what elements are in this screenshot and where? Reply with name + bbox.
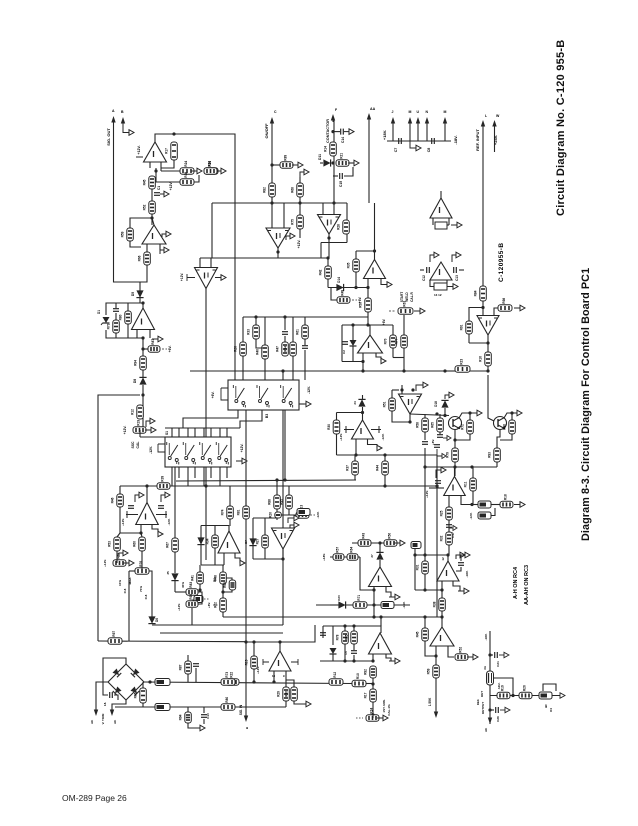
wire A1A dn (142, 338, 144, 356)
transistor Q6 (449, 417, 462, 430)
svg-text:-12V.: -12V. (381, 433, 385, 440)
svg-text:R57: R57 (336, 547, 340, 553)
resistor R61 (166, 538, 179, 552)
wire R113 up (424, 555, 426, 561)
wire R101b up (354, 455, 356, 461)
junction A6B out (327, 236, 330, 239)
wire A8C right rail (410, 414, 449, 416)
wire A7B to bus (373, 605, 375, 617)
wire D8 up (142, 370, 144, 377)
arrow rc (443, 436, 451, 441)
svg-text:R88: R88 (268, 499, 272, 505)
op-amp A6A (364, 260, 386, 279)
wire R55b down (299, 229, 301, 238)
wire R101b dn (354, 475, 356, 480)
wire A4C pin l (223, 553, 225, 565)
wire rail y642 (246, 625, 315, 642)
op-amp A20 (444, 477, 466, 496)
wire ref-out rail (490, 695, 565, 697)
zener diode ZD1 (101, 317, 110, 325)
capacitor C12 (427, 267, 430, 273)
capacitor C22 (342, 342, 348, 345)
label +6 R38 (207, 602, 211, 608)
junction AA A6A (373, 249, 376, 252)
wire bridge rail y707 (115, 706, 286, 708)
wire left rail x425 (424, 448, 426, 555)
capacitor C30 (351, 651, 357, 654)
A13 fb box (435, 222, 447, 229)
label GB1 OUT (480, 691, 484, 698)
arrow ref out (554, 693, 565, 698)
label +12V A2B (137, 145, 141, 154)
wire C14 stub (333, 131, 340, 133)
capacitor C19 (437, 435, 443, 438)
wire R88 dn (264, 548, 266, 559)
wire A13 base r (448, 218, 450, 225)
op-amp A4A (272, 528, 295, 549)
wire A20 apex stub (454, 467, 456, 477)
label HF D4 (544, 704, 548, 708)
wire A8B loop left (336, 413, 338, 456)
svg-text:-12V.: -12V. (316, 511, 320, 518)
svg-text:M: M (444, 110, 447, 114)
junction A11 x345 (343, 624, 346, 627)
arrow R11 out (215, 168, 226, 174)
svg-text:R47: R47 (276, 346, 280, 352)
wire cl6 (284, 336, 286, 342)
svg-text:D5: D5 (131, 292, 135, 296)
junction y617 x374 (372, 615, 375, 618)
arrow Q6 col (471, 410, 482, 416)
wire bridge rail y682 (144, 682, 352, 684)
junction y590 x442 (440, 588, 443, 591)
junction y642 x280 (278, 640, 281, 643)
wire adj loop (494, 678, 513, 696)
wire bridge left (96, 682, 108, 710)
junction chain (150, 216, 153, 219)
wire A6A pin l (367, 279, 369, 288)
svg-text:CONTACTOR: CONTACTOR (326, 119, 330, 143)
resistor R109 (366, 708, 379, 722)
resistor R63 (234, 342, 247, 356)
pin letter C (274, 110, 277, 114)
resistor R43 (133, 537, 146, 551)
wire ref-out drop (489, 631, 491, 724)
svg-text:R40: R40 (256, 349, 260, 355)
svg-text:B3: B3 (213, 578, 217, 582)
svg-text:R43: R43 (362, 533, 366, 539)
wire A9 apex stub (279, 642, 281, 651)
svg-text:R45: R45 (416, 631, 420, 637)
wire S1 top pin 1 (178, 428, 180, 437)
IC S1 quad switch (165, 437, 231, 467)
wire zd3 dn (332, 654, 334, 661)
wire A12 apex (487, 335, 489, 371)
svg-text:C-120955-B: C-120955-B (498, 243, 505, 282)
resistor R113 (416, 561, 429, 574)
svg-text:C26: C26 (496, 716, 500, 722)
wire A10 right lead (459, 269, 464, 271)
wire R49 dn (229, 519, 231, 526)
diode D5 (136, 290, 143, 297)
wire R64 dn (455, 434, 470, 440)
A8B tbar l (344, 426, 354, 433)
resistor R97 (446, 448, 459, 462)
junction A7B in (372, 588, 375, 591)
wire R43 net (141, 533, 142, 537)
junction y467 x425 (423, 465, 426, 468)
svg-text:R90: R90 (189, 594, 193, 600)
op-amp A6B (318, 215, 341, 235)
resistor R114 (433, 598, 446, 611)
wire D10 net (174, 560, 176, 573)
wire y590 rail (415, 589, 442, 591)
svg-text:18.: 18. (103, 702, 107, 706)
arrow A5B out (381, 358, 386, 363)
svg-text:R12: R12 (333, 672, 337, 678)
junction y455 x385 (383, 453, 386, 456)
arrow A4C out (240, 560, 245, 565)
op-amp A2A (142, 225, 166, 244)
wire R64 up (469, 413, 471, 420)
pin letter F (335, 108, 338, 112)
svg-text:+12V.: +12V. (169, 182, 173, 191)
resistor R50 START WELD (398, 301, 413, 315)
wire A30 pin l (441, 581, 443, 590)
wire fb row1 (161, 170, 180, 172)
junction y682 x150 (148, 680, 151, 683)
wire A4A loop bottom (253, 558, 283, 560)
wire R114 dn (441, 611, 443, 617)
wire A4C pin r (235, 553, 240, 563)
label B3 (265, 414, 269, 419)
svg-text:+12V.: +12V. (425, 490, 429, 498)
label +6V B3 (211, 392, 215, 399)
wire B3 bottom link (183, 410, 238, 428)
wire cl2 (255, 317, 257, 325)
wire R112 dn (372, 702, 374, 715)
capacitor C15 (340, 173, 343, 179)
resistor R68 (296, 325, 309, 339)
resistor R120 (179, 661, 192, 674)
junction y642 x246 (244, 640, 247, 643)
svg-text:R71: R71 (357, 595, 361, 601)
wire R20 down (115, 333, 117, 338)
junction y684 x373 (371, 682, 374, 685)
svg-text:D.8: D.8 (144, 594, 148, 599)
label D18 (434, 401, 438, 407)
svg-text:R59: R59 (121, 231, 125, 237)
connector arrow A40 (434, 711, 438, 718)
wire A12 in (482, 301, 484, 316)
pin letter U (417, 110, 420, 114)
svg-text:R68: R68 (291, 187, 295, 193)
junction A2B out (154, 169, 157, 172)
resistor R67 (284, 342, 297, 356)
resistor R73 (474, 286, 487, 301)
arrow C17 (449, 526, 457, 531)
wire R113 dn (424, 574, 426, 590)
label A10 pins (434, 293, 442, 297)
wire A4B pin l (140, 525, 142, 534)
svg-text:Diagram 8-3. Circuit Diagram F: Diagram 8-3. Circuit Diagram For Control… (580, 268, 592, 541)
resistor R46 (108, 537, 121, 551)
wire A1B top bus (200, 257, 329, 259)
label 0.8 b (144, 594, 148, 599)
svg-text:12: 12 (441, 557, 445, 561)
op-amp A40 (430, 627, 454, 646)
resistor R49 (221, 506, 234, 519)
resistor R40 (113, 553, 126, 567)
svg-text:R11: R11 (464, 481, 468, 487)
wire R49 up (229, 486, 231, 506)
A9 tbar left (263, 659, 269, 665)
capacitor C16 (434, 445, 440, 448)
resistor R38 (214, 598, 227, 612)
wire R36 down (367, 312, 369, 317)
connector arrow N (425, 117, 429, 124)
svg-text:+24V.: +24V. (493, 135, 498, 145)
capacitor C26 (282, 332, 288, 335)
diode D6 (148, 616, 155, 623)
wire max bridge (129, 570, 135, 572)
label REF (476, 699, 480, 706)
wire feed x223 (222, 565, 224, 617)
wire A6A loop left (355, 251, 357, 259)
wire Q7 collector (504, 413, 512, 418)
wire cl4 (264, 317, 266, 345)
junction A40 out (434, 654, 437, 657)
wire A5B out dn (362, 362, 364, 372)
label +18V. (382, 130, 387, 140)
label REF. INPUT (475, 129, 480, 151)
label C14 (341, 137, 345, 143)
wire x246 drop (245, 410, 247, 716)
note AA-AH ON RC3 (524, 565, 530, 605)
wire R82 dn (277, 509, 289, 515)
resistor R29 (131, 405, 144, 419)
wire tap stub (272, 164, 280, 166)
svg-text:R66: R66 (138, 255, 142, 261)
wire R91 dn (424, 432, 426, 440)
op-amp A5B (358, 335, 383, 353)
resistor R87 (384, 533, 397, 547)
wire R26 stubs (127, 303, 129, 311)
wire B3 drop (284, 410, 286, 480)
wire c10 dn (203, 719, 205, 724)
svg-text:A-H ON RC4: A-H ON RC4 (513, 566, 519, 599)
resistor R47 (186, 582, 198, 596)
resistor R110 (364, 666, 377, 678)
junction y543 (378, 541, 381, 544)
resistor R21 (296, 505, 309, 519)
resistor R34 (214, 572, 227, 584)
arrow A6A out (387, 282, 392, 288)
resistor R85 (327, 420, 340, 434)
label MIN CAL (186, 590, 190, 596)
wire A11 pin l (372, 654, 374, 661)
wire max net (141, 562, 143, 571)
svg-text:R24: R24 (370, 708, 374, 714)
resistor R45 (111, 494, 124, 507)
wire c21 lead (490, 654, 493, 656)
arrow R71 out (514, 502, 525, 508)
svg-text:R80: R80 (119, 314, 123, 320)
wire bus y486 (120, 485, 437, 487)
label 7 187 MIN (382, 699, 386, 712)
svg-text:40%: 40% (181, 582, 185, 588)
wire hf loop (543, 684, 556, 691)
wire R108 up (353, 626, 355, 631)
transistor Q7 (494, 417, 507, 430)
A4B tbar l (126, 511, 138, 518)
resistor R27 (297, 509, 310, 516)
label -12 R21 (316, 511, 320, 518)
resistor R59 (395, 335, 408, 348)
arrow A2A out (160, 247, 169, 254)
svg-text:C10: C10 (206, 713, 210, 719)
svg-text:R22: R22 (230, 672, 234, 678)
wire A6B bottom rail (321, 242, 347, 244)
wire bus y480 (176, 480, 356, 481)
op-amp A10 (430, 262, 452, 280)
wire R60b link (350, 162, 353, 164)
svg-text:S1: S1 (165, 431, 169, 435)
resistor R18 (329, 672, 343, 686)
S1 left bracket (158, 444, 165, 452)
resistor R23 (108, 631, 122, 645)
wire min to rail (191, 608, 193, 625)
wire A4A apex (282, 549, 284, 559)
wire A13 out lead (447, 224, 449, 226)
resistor R54 (291, 183, 304, 197)
wire c26 lead (490, 709, 494, 711)
wire +18V bus (387, 140, 451, 142)
wire A40 apex stub (441, 617, 443, 627)
wire A13 base (432, 218, 434, 225)
connector arrow M (408, 117, 412, 124)
svg-text:R87: R87 (151, 339, 155, 345)
wire c1b dn (114, 695, 118, 700)
svg-text:R93: R93 (488, 452, 492, 458)
junction y486 x437 (435, 484, 438, 487)
label D17 27 (370, 554, 374, 558)
junction contactor bus (332, 201, 335, 204)
wire C30 dn (353, 655, 355, 661)
wire R117 up (435, 656, 437, 665)
wire R117 dn (435, 678, 437, 712)
svg-text:R28: R28 (337, 224, 341, 230)
connector arrow J (391, 117, 395, 124)
op-amp A30 (437, 561, 459, 581)
label AC b (113, 719, 117, 724)
wire R81 up (384, 455, 386, 461)
wire cap to res (115, 313, 117, 320)
label MAX (128, 577, 132, 585)
resistor R15 (221, 672, 235, 686)
junction A5B out (361, 360, 364, 363)
svg-text:R30: R30 (327, 424, 331, 430)
svg-text:R89: R89 (284, 155, 288, 161)
svg-text:C14: C14 (341, 137, 345, 143)
arrow A10 right up (452, 252, 461, 262)
svg-text:REF.: REF. (476, 699, 480, 706)
svg-text:R31: R31 (416, 564, 420, 570)
wire D16 net (362, 395, 364, 399)
wire r94-r71 (491, 504, 500, 506)
svg-text:R45: R45 (143, 179, 147, 185)
wire D10 dn (174, 581, 176, 592)
resistor R91 (416, 418, 429, 432)
junction A8C r (435, 412, 438, 415)
svg-text:R41: R41 (191, 575, 195, 581)
A10 fb box (434, 283, 447, 290)
wire R58 up (392, 325, 394, 335)
arrow B3 out (300, 401, 311, 407)
wire A1A input chain (139, 282, 141, 303)
resistor R30b (337, 220, 350, 234)
wire R59 up (403, 334, 405, 336)
resistor R96 (503, 420, 516, 434)
wire AA rail (368, 116, 370, 203)
capacitor C13 (454, 267, 457, 273)
svg-text:R80: R80 (225, 697, 229, 703)
resistor R71 (500, 494, 513, 508)
svg-text:R87: R87 (179, 664, 183, 670)
wire bus y617 (223, 616, 443, 618)
wire C15 right (344, 167, 353, 176)
wire A6B loop right dn (346, 234, 348, 243)
IC B3 triple switch (228, 380, 299, 410)
capacitor C17 (446, 525, 452, 528)
wire R107 up (344, 626, 346, 631)
svg-text:+18V.: +18V. (382, 130, 387, 140)
resistor R76 (479, 352, 492, 366)
label B x246 (245, 726, 249, 729)
arrow A8B out (377, 445, 382, 450)
resistor R107 (336, 631, 349, 644)
svg-text:R60: R60 (133, 541, 137, 547)
svg-text:27: 27 (370, 554, 374, 558)
arrow R21 up (290, 522, 299, 530)
svg-text:R75: R75 (291, 219, 295, 225)
resistor R17 (179, 712, 192, 723)
wire A13 apex up (440, 191, 442, 198)
resistor R123 (497, 685, 510, 699)
wire max right drop (151, 575, 153, 617)
resistor R11 (204, 161, 218, 175)
pin letter W (496, 114, 500, 118)
wire A2B fb node (155, 168, 157, 176)
svg-text:R24: R24 (184, 161, 188, 167)
diode D14 (336, 284, 343, 291)
capacitor C1 (154, 193, 160, 196)
junction A8B top (361, 411, 364, 414)
connector arrow M (443, 117, 447, 124)
arrow A20 aux (436, 467, 446, 478)
svg-text:R73: R73 (107, 323, 111, 329)
wire A1A pin l (136, 330, 138, 338)
wire A6A pin r (381, 279, 387, 285)
label +12 A4B (121, 518, 125, 526)
wire A9 dn (285, 680, 287, 687)
A4B tbar r (156, 511, 167, 518)
label +12V A1C (297, 240, 301, 249)
svg-text:R23: R23 (460, 359, 464, 365)
junction Q6 em (453, 438, 456, 441)
junction y371 x283 (281, 369, 284, 372)
junction y486 x285 (283, 478, 286, 481)
